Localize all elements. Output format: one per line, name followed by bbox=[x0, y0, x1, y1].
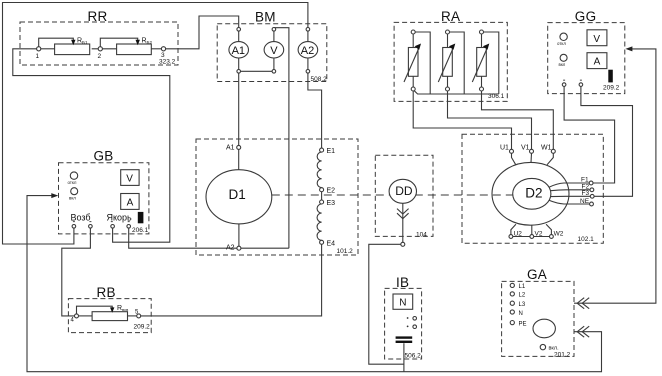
indicator lamp вкл bbox=[71, 188, 78, 195]
svg-text:206.1: 206.1 bbox=[132, 227, 149, 234]
block RB (armature rheostat 209.2) bbox=[68, 299, 151, 333]
svg-text:L1: L1 bbox=[519, 284, 526, 290]
bottom bus of RA bbox=[414, 91, 499, 94]
sensor DD bbox=[389, 179, 416, 203]
svg-text:E2: E2 bbox=[327, 188, 336, 195]
wire: RB node 5 right and up to E4 bbox=[141, 244, 322, 316]
terminal N bbox=[510, 310, 514, 314]
svg-text:IB: IB bbox=[396, 275, 409, 290]
svg-text:E3: E3 bbox=[327, 200, 336, 207]
field winding E3-E4 bbox=[320, 200, 324, 204]
block D2 (synchronous machine 102.1) bbox=[462, 134, 603, 243]
svg-text:4: 4 bbox=[71, 318, 75, 324]
svg-text:209.2: 209.2 bbox=[603, 85, 620, 92]
wire: GB terminal 4 to D1 A2 node and V-meter drop bbox=[129, 228, 289, 248]
svg-text:F1: F1 bbox=[581, 177, 589, 184]
svg-text:A: A bbox=[594, 57, 601, 68]
block GB (DC supply 206.1) bbox=[59, 163, 149, 234]
voltmeter indicator V bbox=[121, 170, 139, 186]
block GA (mains panel 201.2) bbox=[502, 281, 574, 356]
terminal U2 bbox=[509, 235, 513, 239]
svg-text:N: N bbox=[399, 298, 406, 309]
svg-text:D2: D2 bbox=[525, 186, 542, 201]
svg-text:V2: V2 bbox=[535, 231, 543, 238]
chevron coupling symbol bbox=[397, 209, 409, 214]
svg-text:D1: D1 bbox=[229, 187, 246, 202]
rheostat RA3 bbox=[480, 30, 484, 34]
wire stub rotor to A2 bbox=[238, 224, 240, 246]
svg-text:323.2: 323.2 bbox=[159, 59, 176, 66]
terminal NE bbox=[590, 202, 594, 206]
svg-text:506.2: 506.2 bbox=[405, 352, 422, 359]
block RR (field rheostat 323.2) bbox=[20, 22, 178, 65]
node 4 bbox=[75, 314, 79, 318]
loop wire 1 bbox=[415, 32, 430, 94]
svg-text:RA: RA bbox=[441, 9, 460, 24]
terminal L2 bbox=[510, 292, 514, 296]
field winding E1-E2 bbox=[320, 148, 324, 152]
svg-text:A1: A1 bbox=[232, 45, 245, 57]
svg-text:1: 1 bbox=[36, 53, 40, 60]
svg-text:Б2: Б2 bbox=[147, 40, 153, 45]
svg-text:101.2: 101.2 bbox=[337, 248, 354, 255]
svg-text:A2: A2 bbox=[301, 45, 314, 57]
ammeter A1 bbox=[237, 28, 241, 32]
wire DD to terminal bbox=[402, 203, 404, 242]
loop wire 2 bbox=[450, 32, 465, 94]
node A2 of D1 bbox=[237, 246, 241, 250]
chevron arrow into GA lower bbox=[577, 326, 584, 337]
svg-text:Б1: Б1 bbox=[82, 40, 88, 45]
terminal U1 bbox=[510, 149, 514, 153]
svg-text:GA: GA bbox=[527, 267, 547, 282]
block BM (meter block 508.2) bbox=[217, 24, 327, 82]
ammeter indicator A bbox=[121, 194, 139, 210]
ammeter A2 bbox=[306, 28, 310, 32]
svg-text:Возб: Возб bbox=[71, 212, 91, 222]
svg-text:V1: V1 bbox=[521, 144, 530, 151]
wire: RR node1 loop to GB terminal 3 (Якорь +) bbox=[13, 49, 170, 242]
machine D2 rotor bbox=[513, 178, 551, 209]
wire: GB terminal 2 down-left to RB node 4 bbox=[62, 228, 91, 316]
svg-text:A: A bbox=[127, 197, 134, 208]
svg-text:306.1: 306.1 bbox=[488, 93, 505, 100]
arrowhead into GG bbox=[625, 46, 632, 51]
rotor leads to F terminals bbox=[549, 183, 589, 187]
rheostat RA1 bbox=[411, 30, 415, 34]
block IB (power interface 506.2) bbox=[385, 288, 422, 359]
wire: GA lower arrow feed via bottom bus and left side to GB arrow bbox=[27, 196, 602, 372]
svg-text:508.2: 508.2 bbox=[311, 76, 328, 83]
block DD (speed sensor 104) bbox=[375, 155, 433, 236]
indicator dots bbox=[407, 317, 409, 319]
wire: GG terminal 1 to F1 of D2 bbox=[564, 87, 615, 184]
wire E2-E3 bbox=[321, 192, 323, 200]
terminal L1 bbox=[510, 283, 514, 287]
svg-text:DD: DD bbox=[395, 184, 413, 198]
machine D2 stator bbox=[492, 162, 569, 225]
svg-text:GB: GB bbox=[94, 148, 114, 163]
node 3 bbox=[151, 48, 161, 50]
svg-text:RB: RB bbox=[97, 285, 116, 300]
svg-text:V: V bbox=[126, 174, 133, 185]
rheostat RA2 bbox=[446, 30, 450, 34]
wire: A1 meter bottom down to D1 A1 node bbox=[238, 73, 240, 145]
svg-text:всв: всв bbox=[122, 307, 128, 312]
svg-text:U2: U2 bbox=[514, 231, 523, 238]
terminal F3 bbox=[590, 194, 594, 198]
svg-text:201.2: 201.2 bbox=[554, 351, 571, 358]
svg-text:L2: L2 bbox=[519, 293, 526, 299]
machine D1 bbox=[206, 170, 272, 224]
node 5 bbox=[137, 314, 141, 318]
voltmeter V bbox=[272, 28, 276, 32]
wire: GG terminal 2 to F3 of D2 bbox=[581, 87, 633, 197]
node 2 bbox=[98, 47, 102, 51]
wire: shaft coupling dash line D1-DD-D2 bbox=[272, 194, 513, 196]
svg-text:N: N bbox=[519, 311, 523, 317]
breaker bar bbox=[608, 70, 613, 83]
svg-text:GG: GG bbox=[575, 9, 597, 24]
arrowhead into GB bbox=[51, 193, 58, 198]
wire: A2 meter top loop via top-left border to GB terminal 1 bbox=[3, 3, 308, 245]
meter dial bbox=[533, 319, 555, 338]
wire stub A1 to rotor bbox=[238, 149, 240, 169]
svg-text:W1: W1 bbox=[541, 144, 552, 151]
svg-text:A1: A1 bbox=[226, 145, 235, 152]
svg-text:V: V bbox=[270, 45, 278, 57]
svg-text:F3: F3 bbox=[582, 190, 590, 197]
node A1 of D1 bbox=[237, 145, 241, 149]
wire: V meter top to vertical drop x=288.9 bbox=[274, 28, 289, 249]
svg-text:L3: L3 bbox=[519, 302, 526, 308]
wire: DD terminal left and down to IB capacitor lead bbox=[369, 244, 404, 364]
stator leads bottom bbox=[511, 224, 516, 234]
svg-text:104: 104 bbox=[416, 232, 427, 239]
svg-text:NE: NE bbox=[580, 198, 590, 205]
svg-text:вкл: вкл bbox=[69, 196, 76, 201]
rheostat Rвсв bbox=[92, 312, 127, 321]
stator leads top bbox=[512, 153, 516, 165]
wire: RA phase 1 to D2 U1 bbox=[413, 91, 511, 149]
wire: RR node3 to A1 meter top bbox=[166, 16, 239, 49]
loop wire 3 bbox=[484, 32, 499, 94]
svg-text:RR: RR bbox=[88, 9, 108, 24]
indicator lamp откл bbox=[70, 172, 77, 179]
terminal L3 bbox=[510, 301, 514, 305]
indicator N bbox=[393, 294, 413, 309]
terminal V2 bbox=[530, 235, 534, 239]
terminal W1 bbox=[551, 149, 555, 153]
GG terminals bbox=[563, 79, 565, 82]
breaker bar bbox=[138, 212, 144, 223]
capacitor bars bbox=[396, 336, 413, 338]
svg-text:Якорь: Якорь bbox=[107, 212, 133, 222]
ammeter indicator A bbox=[587, 53, 607, 69]
wire: IB capacitor lead to bottom bus bbox=[403, 343, 405, 372]
indicator lamp вкл bbox=[560, 54, 567, 61]
indicator lamp откл bbox=[560, 33, 567, 40]
block RA (load rheostats 306.1) bbox=[394, 22, 507, 101]
resistor RБ1 bbox=[41, 48, 55, 50]
voltmeter indicator V bbox=[587, 30, 607, 46]
svg-text:W2: W2 bbox=[554, 231, 564, 238]
node 1 bbox=[37, 47, 41, 51]
resistor RБ2 bbox=[92, 48, 117, 50]
terminal F2 bbox=[590, 188, 594, 192]
wire: GG arrow feed down right side to GA upper arrow bbox=[574, 49, 656, 303]
svg-text:вкл: вкл bbox=[559, 62, 566, 67]
svg-text:A2: A2 bbox=[226, 244, 235, 251]
wire: A1 meter bottom to V meter bottom bbox=[239, 70, 274, 72]
wire: RA phase 3 to D2 W1 bbox=[482, 91, 554, 149]
terminal V1 bbox=[530, 149, 534, 153]
wire: RA phase 2 to D2 V1 bbox=[448, 91, 532, 149]
svg-text:102.1: 102.1 bbox=[578, 236, 595, 243]
svg-text:откл: откл bbox=[557, 41, 566, 46]
terminal F1 bbox=[589, 181, 593, 185]
terminal W2 bbox=[550, 235, 554, 239]
svg-text:E4: E4 bbox=[327, 240, 336, 247]
star-point bus U2-V2-W2 bbox=[511, 236, 552, 238]
svg-text:V: V bbox=[593, 34, 600, 45]
DD terminal bbox=[401, 242, 405, 246]
GB terminals 1-4 bbox=[73, 220, 75, 223]
svg-text:PE: PE bbox=[519, 321, 527, 327]
svg-text:откл: откл bbox=[68, 180, 77, 185]
switch вкл. bbox=[540, 344, 545, 349]
svg-text:E1: E1 bbox=[327, 148, 336, 155]
block GG (generator panel 209.2) bbox=[548, 23, 625, 94]
terminal PE bbox=[510, 321, 514, 325]
svg-text:BM: BM bbox=[255, 9, 276, 24]
svg-text:209.2: 209.2 bbox=[134, 324, 151, 331]
svg-text:U1: U1 bbox=[500, 144, 509, 151]
svg-text:2: 2 bbox=[98, 53, 102, 60]
block D1 (DC machine 101.2) bbox=[196, 139, 358, 255]
chevron arrow into GA upper bbox=[577, 298, 584, 309]
wire: A2 meter bottom to E1 bbox=[308, 73, 322, 148]
